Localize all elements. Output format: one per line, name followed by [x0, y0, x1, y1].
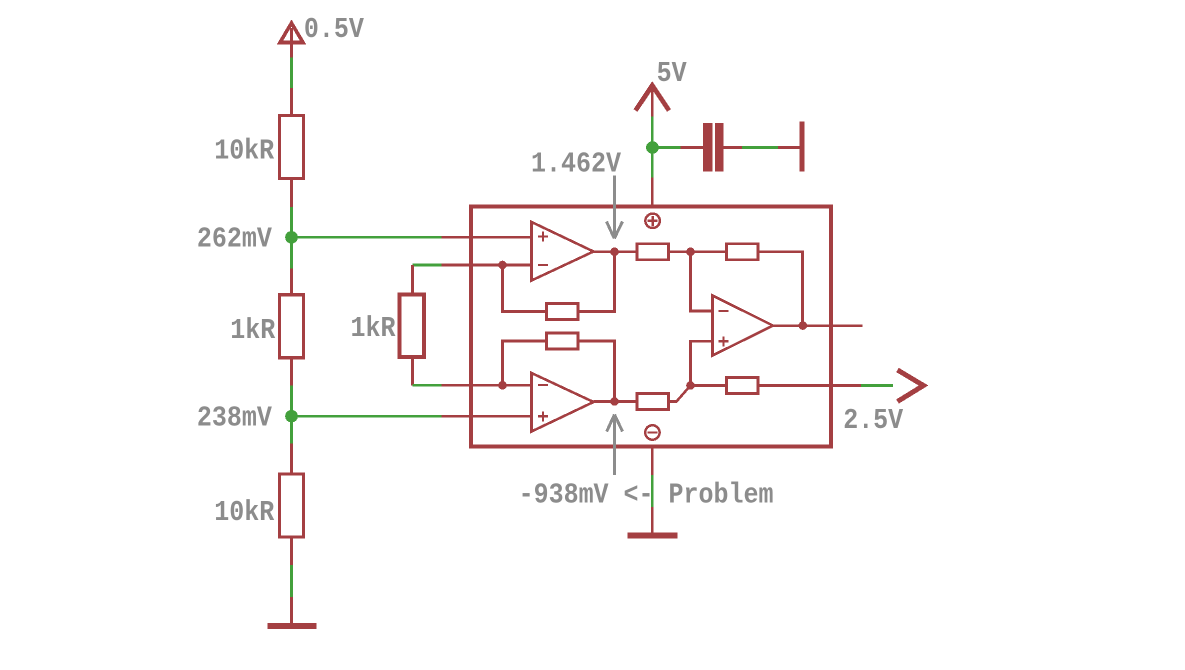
svg-text:262mV: 262mV: [197, 224, 272, 256]
svg-text:2.5V: 2.5V: [843, 406, 903, 438]
svg-text:1kR: 1kR: [230, 316, 275, 348]
svg-text:-938mV <- Problem: -938mV <- Problem: [519, 480, 774, 512]
svg-text:5V: 5V: [657, 59, 687, 91]
svg-text:0.5V: 0.5V: [304, 15, 364, 47]
svg-text:1kR: 1kR: [351, 314, 396, 346]
svg-text:238mV: 238mV: [197, 403, 272, 435]
svg-text:10kR: 10kR: [214, 136, 274, 168]
svg-text:10kR: 10kR: [214, 498, 274, 530]
svg-text:1.462V: 1.462V: [531, 149, 621, 181]
